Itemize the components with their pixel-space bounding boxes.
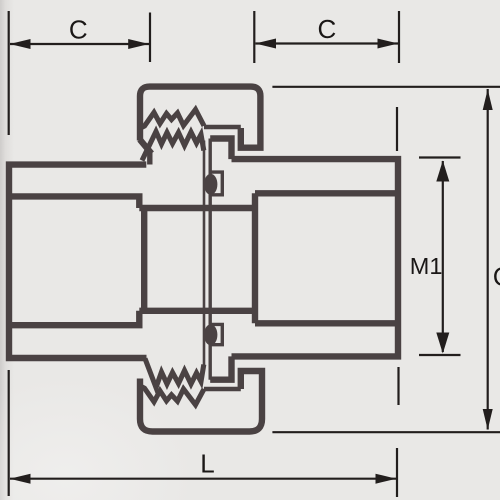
left socket inner top line + step <box>6 196 139 208</box>
union mating face line left <box>203 141 206 370</box>
left socket outer profile <box>9 165 147 358</box>
dim L: extension line left <box>8 370 10 496</box>
dim C right: extension line left <box>253 11 255 63</box>
union mating face line right <box>208 139 211 380</box>
right part flange bottom <box>210 356 231 379</box>
left part pipe-stop face <box>141 208 147 311</box>
seal housing box top <box>209 172 223 195</box>
svg-text:C: C <box>493 262 500 292</box>
nut internal thread zigzag top <box>141 110 205 129</box>
right socket inner bottom line <box>255 320 398 326</box>
left socket inner bottom line + step <box>6 311 139 325</box>
nut internal thread zigzag bottom <box>141 386 205 405</box>
dim C left: dimension line <box>10 43 149 45</box>
dim L: extension line right upper segment <box>397 367 399 405</box>
male thread root riser top <box>147 152 152 165</box>
right part pipe-stop face <box>252 193 258 323</box>
male thread zigzag top <box>142 132 204 161</box>
union nut top skirt chamfer <box>140 140 152 154</box>
dim M1: bottom tick <box>419 354 461 356</box>
union nut top bore line <box>204 125 241 130</box>
dim L: dimension line <box>10 478 396 480</box>
union nut bottom bore line <box>204 387 241 392</box>
dim right OD: top reference line <box>272 86 500 88</box>
scan light streak bottom-left <box>0 300 260 500</box>
union nut bottom half outline <box>140 371 262 432</box>
dim right OD: dimension line <box>487 89 489 430</box>
right socket inner top line <box>255 190 398 196</box>
right part flange top <box>210 139 231 160</box>
dim L: extension line right lower segment <box>396 448 398 497</box>
dim M1: dimension line <box>442 161 444 352</box>
svg-text:C: C <box>69 14 88 44</box>
svg-text:M1: M1 <box>410 253 443 279</box>
dim right OD: bottom reference line <box>272 431 500 433</box>
dim C right: dimension line <box>256 42 399 44</box>
o-ring bottom <box>204 324 217 345</box>
bore bottom line <box>139 308 255 314</box>
o-ring top <box>204 174 217 195</box>
bore top line <box>139 205 255 211</box>
seal housing box bottom <box>209 324 223 344</box>
male thread zigzag bottom <box>145 359 204 388</box>
right socket outer profile <box>232 159 399 356</box>
union nut top half outline <box>140 87 260 148</box>
dim C right: extension line right upper <box>398 11 400 63</box>
dim C left: extension line at fitting left end <box>8 11 10 135</box>
dim C left: extension line at nut left face <box>149 13 151 63</box>
dim M1: top tick <box>419 156 461 158</box>
dim C right: extension line right lower <box>396 107 398 151</box>
svg-text:L: L <box>200 449 214 479</box>
svg-text:C: C <box>318 14 337 44</box>
